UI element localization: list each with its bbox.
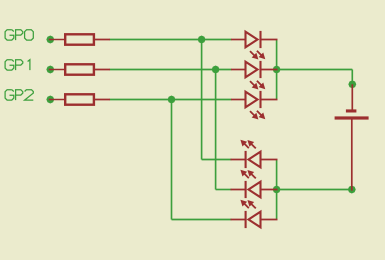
junction node GP1/D5 (212, 66, 220, 74)
resistor R1 (49, 34, 110, 44)
junction node battery top (348, 80, 356, 88)
wire bottom bus to battery horizontal (277, 189, 352, 191)
wire D5 cathode horizontal (216, 189, 232, 191)
wire top cathode bus vertical (276, 40, 278, 100)
wire GP2 vertical drop to D6 (171, 100, 173, 220)
wire D6 cathode horizontal (172, 219, 232, 221)
LED D5 (231, 170, 278, 198)
label GP2 (5, 90, 33, 100)
resistor R2 (49, 64, 110, 74)
wire D4 cathode horizontal (202, 159, 232, 161)
terminal GP2 (46, 96, 54, 104)
battery B1 (335, 84, 369, 190)
wire GP2 row horizontal (110, 99, 232, 101)
label GP0 (5, 30, 33, 40)
terminal GP1 (46, 66, 54, 74)
wire GP0 row horizontal (110, 39, 232, 41)
label GP1 (5, 60, 30, 70)
wire GP1 row horizontal (110, 69, 232, 71)
LED D6 (231, 200, 278, 228)
wire GP1 vertical drop to D5 (215, 70, 217, 190)
resistor R3 (49, 94, 110, 104)
wire top bus to battery horizontal (277, 69, 353, 71)
junction node bottom bus (273, 186, 281, 194)
LED D4 (231, 140, 278, 168)
junction node battery bottom (348, 186, 356, 194)
LED D3 (231, 91, 278, 120)
junction node GP0/D4 (198, 36, 206, 44)
LED D2 (231, 61, 278, 90)
terminal GP0 (46, 36, 54, 44)
junction node GP2/D6 (168, 96, 176, 104)
LED D1 (231, 31, 278, 60)
junction node top bus (273, 66, 281, 74)
wire GP0 vertical drop to D4 (201, 40, 203, 160)
wire bottom anode bus vertical (276, 160, 278, 220)
wire battery top vertical (351, 70, 353, 85)
